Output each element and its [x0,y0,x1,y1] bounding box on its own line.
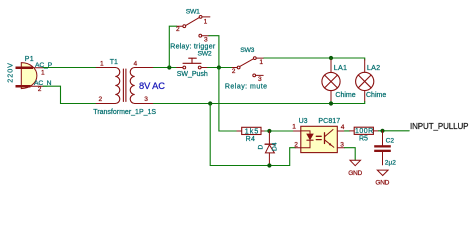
wire R4 to U3 pin1 [265,130,294,132]
pin 1 AC_P of P1 [34,62,53,77]
lamp LA1 [322,58,356,104]
wire SW2 to SW3 [208,67,238,69]
svg-text:Relay: mute: Relay: mute [225,84,268,91]
svg-text:R4: R4 [246,136,256,143]
svg-text:1: 1 [292,124,296,131]
switch SW2 [177,51,212,78]
svg-text:8V AC: 8V AC [139,81,165,91]
pin 2 [295,147,300,149]
svg-text:SW3: SW3 [240,47,254,54]
svg-text:LA2: LA2 [367,63,380,72]
pin 3 [338,147,345,149]
optocoupler U3 [292,118,345,152]
svg-text:C2: C2 [386,137,395,144]
svg-text:D4: D4 [272,142,279,151]
ground GND (U3 pin3) [348,160,362,177]
pin 2 [96,103,115,105]
wire AC_N to T1 pin2 [43,86,97,103]
junction LA1 bottom [329,101,333,105]
secondary winding [130,68,135,104]
svg-text:R5: R5 [359,135,368,142]
phototransistor [324,133,326,144]
svg-text:T1: T1 [110,59,118,66]
svg-text:INPUT_PULLUP: INPUT_PULLUP [410,122,468,131]
resistor R4 [237,127,265,143]
wire U3 pin4 to R5 [345,130,350,132]
coupling arrows [316,135,321,137]
svg-text:100R: 100R [355,128,374,135]
connector P1 [6,56,37,89]
pin 3 [135,103,154,105]
junction bottom rail left [208,101,212,105]
svg-text:P1: P1 [25,56,34,63]
svg-text:3: 3 [258,76,262,83]
svg-text:4: 4 [134,61,138,68]
svg-text:1k5: 1k5 [245,128,260,135]
svg-text:1: 1 [204,19,208,26]
wire AC_P to T1 pin1 [43,67,97,69]
lamps bottom rail from T1 pin3 [154,103,365,105]
pin 2 AC_N of P1 [30,80,51,93]
switch SW1 [170,9,216,51]
pin 4 [135,67,154,69]
junction at left rail [167,65,171,69]
svg-text:4: 4 [341,124,345,131]
svg-text:Relay: trigger: Relay: trigger [170,44,216,51]
svg-text:1: 1 [259,59,263,66]
wire U3 pin3 to GND [345,148,356,161]
svg-text:Chime: Chime [366,92,386,99]
wire SW3 pin1 to lamps top rail [264,57,365,59]
svg-text:LA1: LA1 [334,63,347,72]
wire rail to R4 [219,68,237,132]
core bars [122,69,124,102]
resistor R5 [350,127,379,142]
svg-text:D: D [257,145,264,150]
svg-text:1: 1 [41,70,45,77]
svg-text:2: 2 [99,96,103,103]
svg-text:GND: GND [348,170,362,177]
wire R5 to label [378,130,409,132]
primary winding [115,68,120,104]
svg-text:U3: U3 [299,118,308,125]
lamp LA2 [356,58,387,104]
junction below D4 [267,163,271,167]
svg-text:220V: 220V [6,62,15,83]
svg-text:SW_Push: SW_Push [177,71,208,78]
svg-text:2: 2 [176,26,180,33]
junction at C2 top [380,129,384,133]
junction LA1 top [329,56,333,60]
svg-text:2: 2 [294,142,298,149]
svg-text:PC817: PC817 [318,118,340,125]
wire SW1 pin3 down to rail [209,36,219,68]
return wire: bottom rail to U3 pin 2 [210,104,295,166]
svg-text:3: 3 [204,37,208,44]
pin 1 [294,130,301,132]
svg-text:GND: GND [375,179,389,186]
wire T1 pin4 to SW2 [154,67,177,69]
switch SW3 [225,47,268,90]
ground GND (C2) [375,170,389,186]
diode D4 [257,131,278,166]
capacitor C2 [374,131,396,167]
junction mid rail [217,65,221,69]
svg-text:2: 2 [38,86,42,93]
svg-text:3: 3 [340,142,344,149]
svg-text:2µ2: 2µ2 [385,160,396,167]
svg-text:2: 2 [232,68,236,75]
svg-text:Chime: Chime [335,92,355,99]
pin 4 [338,130,345,132]
pin 1 [96,67,115,69]
svg-text:Transformer_1P_1S: Transformer_1P_1S [93,109,156,116]
wire SW1 pin2 down to rail [169,26,176,67]
svg-text:SW1: SW1 [186,9,200,16]
svg-text:SW2: SW2 [198,51,212,58]
transformer T1 [93,59,156,116]
svg-text:3: 3 [144,96,148,103]
junction above D4 [267,129,271,133]
svg-text:1: 1 [100,61,104,68]
internal LED [301,131,310,134]
